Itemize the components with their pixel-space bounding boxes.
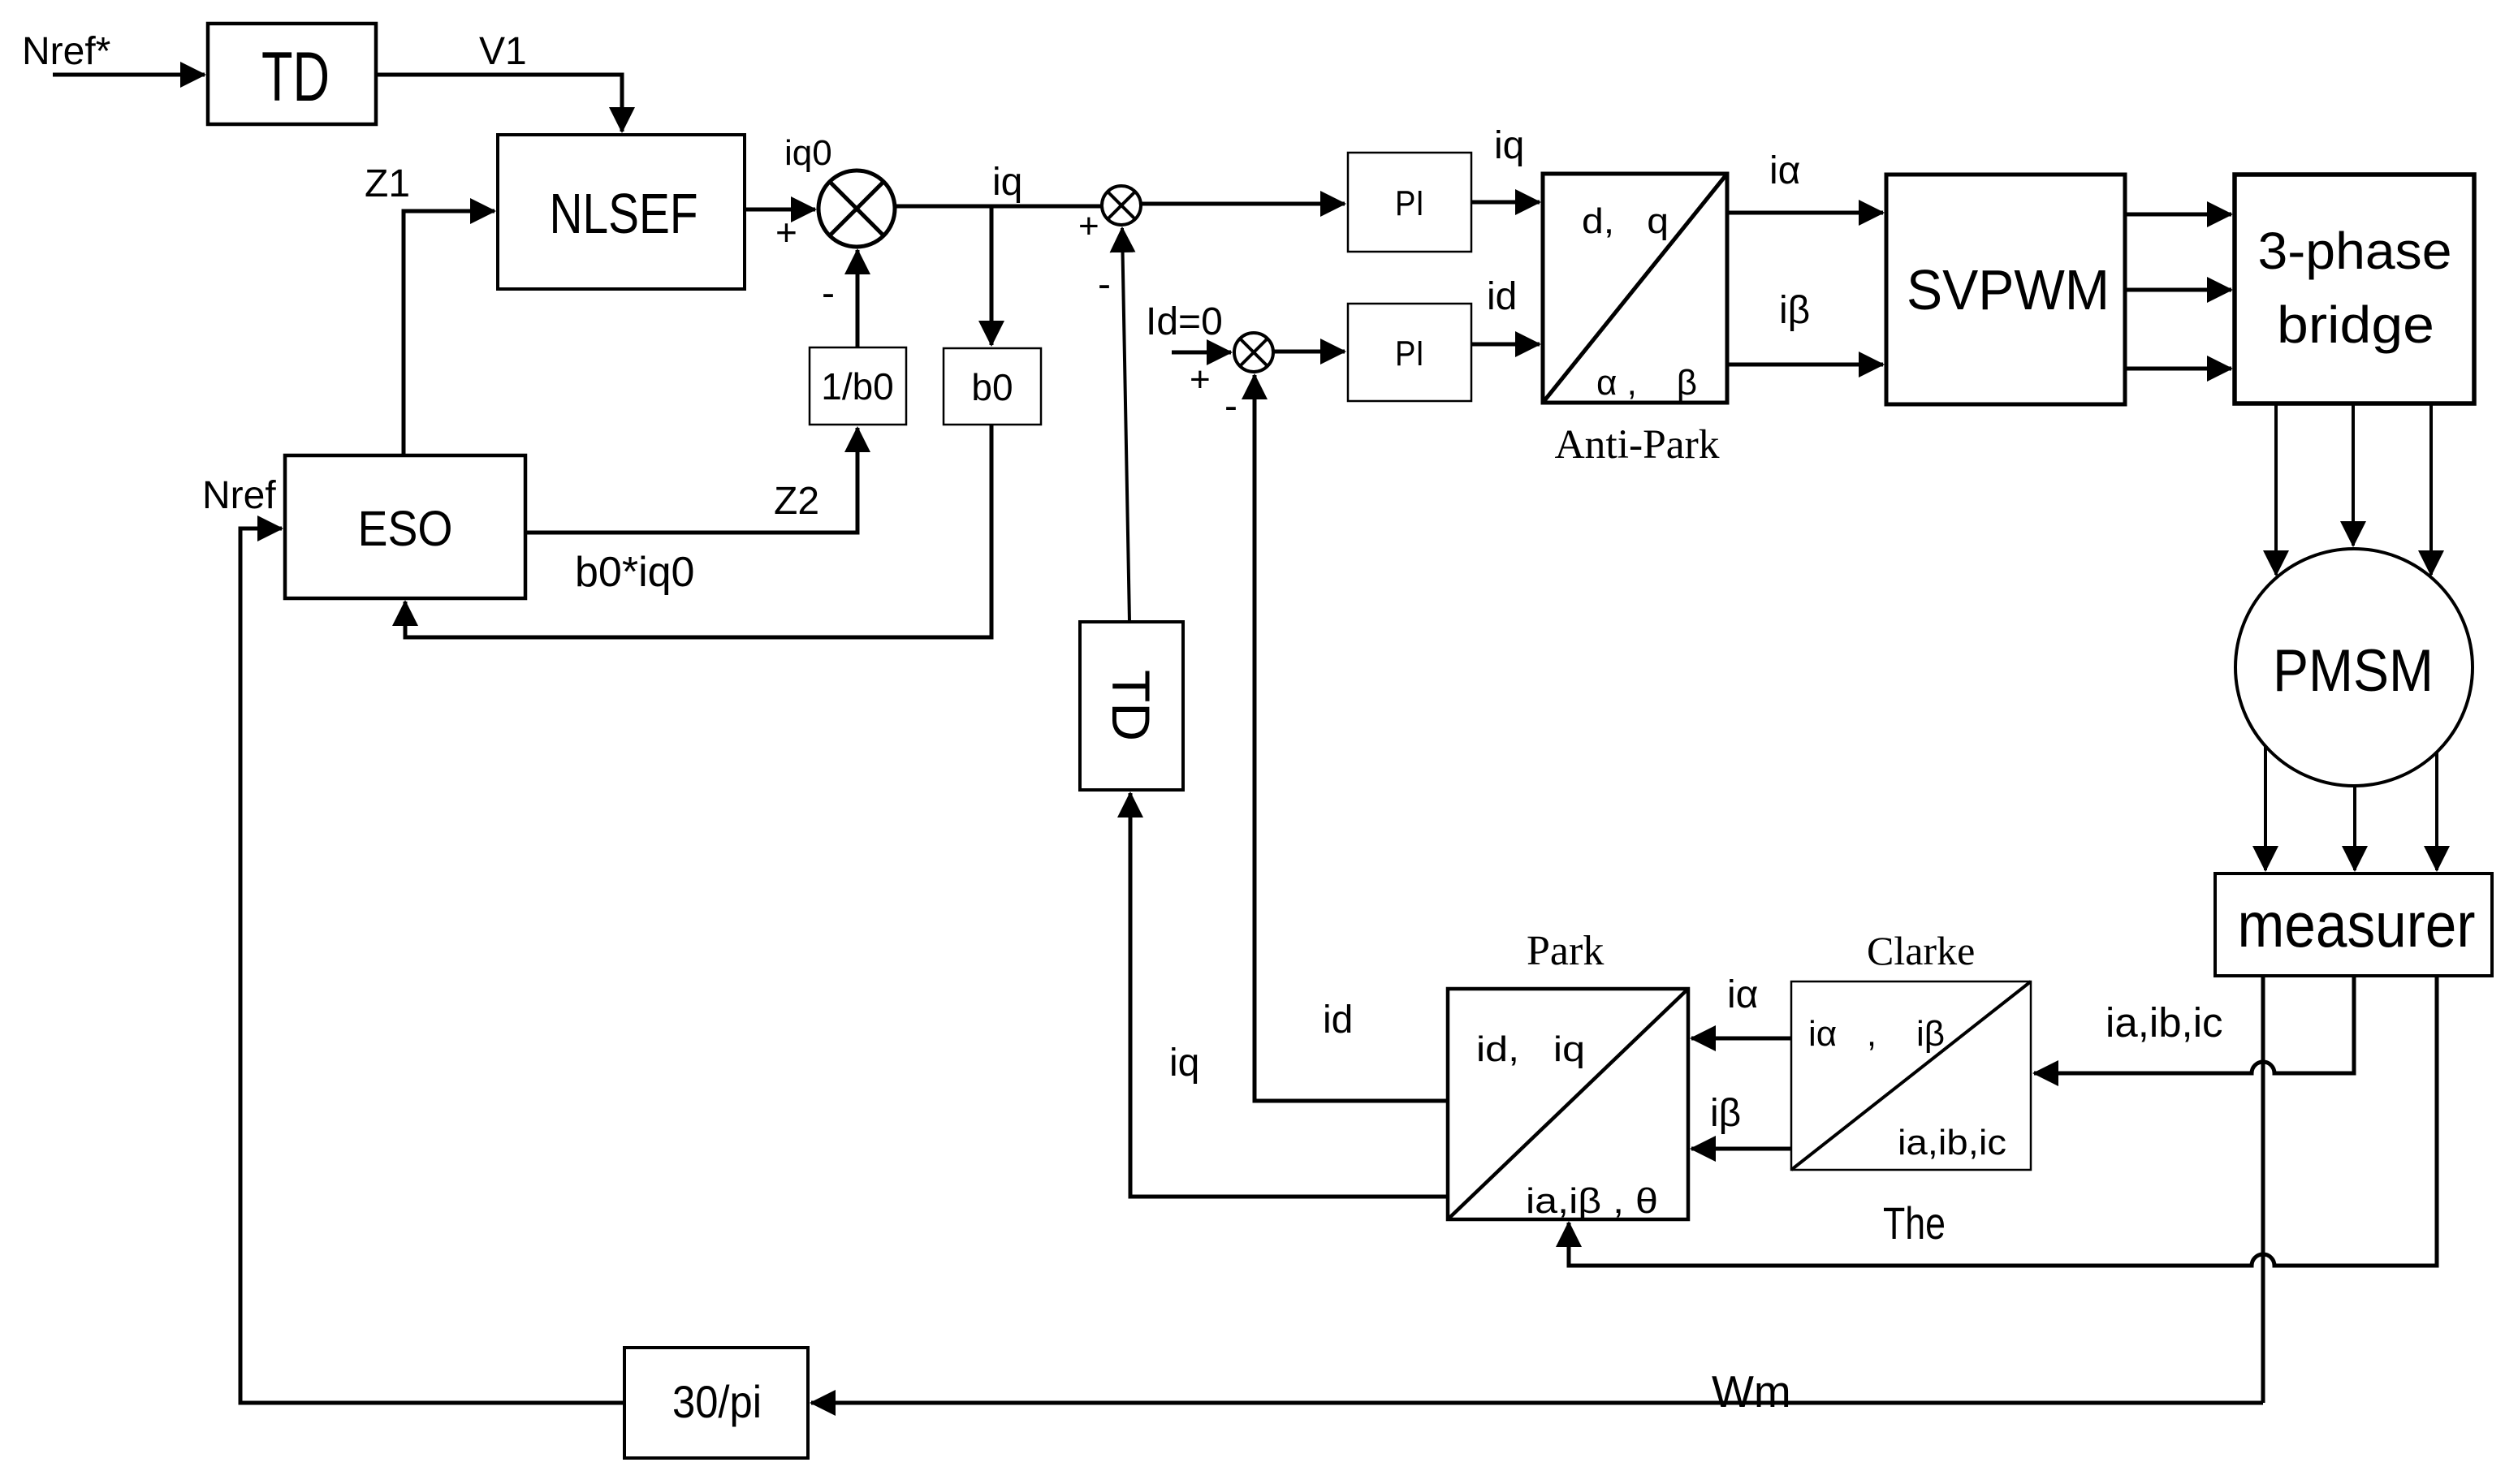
wire Wm from measurer to 30/pi: [811, 1401, 2263, 1405]
wire branch down from iq node into b0: [990, 206, 994, 345]
svg-text:id: id: [1487, 275, 1517, 318]
wire i alpha from Clarke to Park: [1691, 1037, 1791, 1041]
node V1 label: [479, 30, 527, 73]
wire SVPWM to bridge line 3: [2125, 367, 2231, 371]
block b0: [944, 348, 1041, 425]
svg-text:NLSEF: NLSEF: [550, 182, 698, 245]
svg-text:Id=0: Id=0: [1146, 300, 1223, 343]
svg-text:+: +: [775, 211, 797, 253]
svg-text:iα , iβ: iα , iβ: [1808, 1014, 1945, 1054]
svg-text:+: +: [1190, 360, 1211, 399]
svg-text:iβ: iβ: [1779, 289, 1810, 332]
svg-text:bridge: bridge: [2277, 296, 2434, 354]
block TD2 (current tracking differentiator, rotated): [1080, 622, 1183, 790]
svg-text:iα: iα: [1727, 973, 1758, 1016]
wire i alpha from Anti-Park to SVPWM: [1727, 211, 1883, 215]
node i alpha label (Clarke to Park): [1727, 973, 1758, 1016]
svg-text:The: The: [1883, 1197, 1946, 1249]
wire SVPWM to bridge line 1: [2125, 213, 2231, 217]
wire ia,ib,ic from measurer to Clarke with hop: [2034, 976, 2354, 1073]
svg-text:Wm: Wm: [1712, 1366, 1791, 1417]
node plus sign at J1: [775, 211, 797, 253]
svg-text:Park: Park: [1527, 928, 1604, 974]
node i beta label (Anti-Park out): [1779, 289, 1810, 332]
block 30/pi: [624, 1348, 808, 1458]
wire Nref* input arrow into TD: [53, 73, 205, 77]
block Anti-Park transform: [1543, 174, 1727, 403]
node plus sign at J3: [1190, 360, 1211, 399]
node b0*iq0 label: [575, 549, 694, 596]
node minus sign at J2: [1098, 263, 1111, 306]
svg-text:iα: iα: [1769, 149, 1800, 192]
wire PMSM to measurer phase c: [2435, 752, 2438, 870]
svg-text:PI: PI: [1395, 334, 1424, 373]
svg-text:measurer: measurer: [2238, 889, 2476, 960]
node iq0 label: [784, 133, 832, 173]
wire bridge to PMSM phase c: [2429, 403, 2433, 575]
wire PMSM to measurer phase a: [2264, 746, 2267, 870]
svg-text:1/b0: 1/b0: [821, 365, 894, 408]
node Wm label: [1712, 1366, 1791, 1417]
wire iq from J1 to J2 with branch junction: [895, 205, 1102, 209]
svg-text:id, iq: id, iq: [1476, 1029, 1585, 1069]
wire iq0 from NLSEF to summing junction J1: [745, 208, 815, 212]
svg-text:PMSM: PMSM: [2273, 638, 2434, 704]
wire bridge to PMSM phase a: [2274, 403, 2278, 575]
wire i beta from Anti-Park to SVPWM: [1727, 363, 1883, 367]
block PI1 (speed-loop current PI): [1348, 153, 1471, 252]
svg-text:ESO: ESO: [358, 501, 453, 556]
wire iq from Park left to TD2 bottom: [1130, 793, 1448, 1197]
node iq label on feedback wire: [1169, 1042, 1199, 1085]
junction J2 summing circle: [1102, 186, 1141, 225]
block 1/b0: [810, 347, 906, 425]
svg-text:ia,iβ , θ: ia,iβ , θ: [1526, 1181, 1658, 1221]
node Z2 label: [774, 480, 819, 523]
node Z1 label: [365, 162, 410, 205]
block NLSEF: [498, 135, 745, 289]
svg-text:Anti-Park: Anti-Park: [1555, 422, 1721, 468]
wire Nref feedback from 30/pi to ESO left: [240, 528, 624, 1403]
svg-text:id: id: [1323, 999, 1353, 1042]
wire id feedback up into J3 bottom: [1255, 375, 1448, 1101]
svg-text:-: -: [1098, 263, 1111, 306]
node Nref label: [202, 474, 276, 517]
junction J1 summing circle: [818, 170, 895, 247]
block Clarke transform: [1791, 981, 2031, 1170]
svg-text:b0*iq0: b0*iq0: [575, 549, 694, 596]
wire SVPWM to bridge line 2: [2125, 288, 2231, 292]
wire bridge to PMSM phase b: [2352, 403, 2355, 546]
node Anti-Park caption: [1555, 422, 1721, 468]
wire from 1/b0 up into J1 bottom: [856, 250, 860, 347]
svg-text:Clarke: Clarke: [1867, 928, 1975, 973]
node The label: [1883, 1197, 1946, 1249]
svg-text:ia,ib,ic: ia,ib,ic: [1898, 1123, 2006, 1163]
svg-text:+: +: [1078, 206, 1099, 246]
svg-text:V1: V1: [479, 30, 527, 73]
wire Z2 from ESO to 1/b0 bottom: [525, 428, 857, 533]
node i beta label (Clarke to Park): [1710, 1092, 1741, 1135]
block PI2 (d-axis current PI): [1348, 304, 1471, 401]
block 3-phase bridge: [2235, 175, 2474, 403]
block ESO: [285, 455, 525, 598]
svg-text:iq0: iq0: [784, 133, 832, 173]
node Clarke caption: [1867, 928, 1975, 973]
svg-text:-: -: [822, 272, 835, 315]
svg-text:Nref: Nref: [202, 474, 276, 517]
node iq label after J1: [992, 161, 1022, 204]
node Nref* input label: [22, 30, 110, 73]
wire Id=0 input into J3: [1172, 351, 1231, 355]
svg-text:PI: PI: [1395, 183, 1424, 223]
wire from J2 to PI1: [1141, 202, 1345, 206]
wire theta from measurer right output to Park bottom with hop: [1569, 976, 2437, 1266]
svg-text:d, q: d, q: [1582, 201, 1669, 241]
block SVPWM: [1886, 175, 2125, 404]
node minus sign at J3: [1224, 385, 1237, 428]
wire measurer left output down to Wm line: [2261, 976, 2265, 1403]
svg-text:iβ: iβ: [1710, 1092, 1741, 1135]
block PMSM motor circle: [2235, 549, 2473, 786]
node id label on feedback wire: [1323, 999, 1353, 1042]
svg-text:iq: iq: [992, 161, 1022, 204]
node i alpha label (Anti-Park out): [1769, 149, 1800, 192]
wire i beta from Clarke to Park: [1691, 1147, 1791, 1151]
wire PI2 output to Anti-Park: [1471, 343, 1540, 347]
node iq label above PI1 output: [1494, 124, 1524, 167]
svg-text:Z1: Z1: [365, 162, 410, 205]
wire Z1 from ESO top to NLSEF left: [404, 211, 495, 455]
node plus sign at J2: [1078, 206, 1099, 246]
wire b0 output feedback into ESO bottom: [405, 425, 991, 637]
wire PI1 output to Anti-Park: [1471, 201, 1540, 205]
svg-text:TD: TD: [1101, 670, 1161, 741]
wire from TD2 up into J2 bottom: [1122, 228, 1129, 622]
block measurer: [2215, 874, 2492, 976]
node minus sign at J1: [822, 272, 835, 315]
svg-text:Z2: Z2: [774, 480, 819, 523]
wire from J3 to PI2: [1273, 350, 1345, 354]
node id label above PI2 output: [1487, 275, 1517, 318]
block Park transform: [1448, 989, 1688, 1221]
wire V1 from TD to NLSEF top: [376, 75, 622, 132]
svg-text:ia,ib,ic: ia,ib,ic: [2105, 999, 2223, 1046]
svg-text:-: -: [1224, 385, 1237, 428]
svg-text:SVPWM: SVPWM: [1907, 258, 2110, 321]
node Park caption: [1527, 928, 1604, 974]
svg-text:b0: b0: [971, 366, 1013, 408]
svg-text:iq: iq: [1169, 1042, 1199, 1085]
svg-text:Nref*: Nref*: [22, 30, 110, 73]
svg-text:30/pi: 30/pi: [672, 1376, 762, 1427]
svg-text:iq: iq: [1494, 124, 1524, 167]
svg-text:TD: TD: [261, 38, 330, 116]
wire PMSM to measurer phase b: [2353, 786, 2356, 870]
svg-text:α , β: α , β: [1596, 363, 1697, 403]
block TD (tracking differentiator): [208, 24, 376, 124]
junction J3 summing circle: [1234, 333, 1273, 372]
node ia,ib,ic label: [2105, 999, 2223, 1046]
node Id=0 label: [1146, 300, 1223, 343]
svg-text:3-phase: 3-phase: [2258, 222, 2452, 280]
